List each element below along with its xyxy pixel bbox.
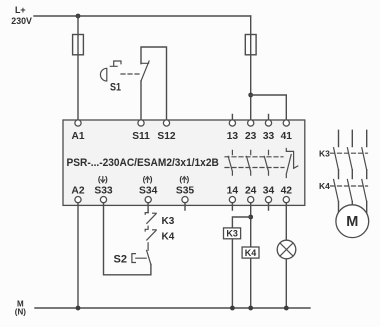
svg-text:13: 13 bbox=[227, 131, 239, 142]
svg-text:S2: S2 bbox=[114, 254, 127, 266]
svg-text:M: M bbox=[346, 214, 358, 230]
svg-text:23: 23 bbox=[245, 131, 257, 142]
svg-text:L+: L+ bbox=[15, 5, 26, 15]
svg-text:K4: K4 bbox=[319, 181, 330, 191]
svg-text:A2: A2 bbox=[71, 186, 84, 197]
svg-text:K4: K4 bbox=[245, 248, 257, 258]
svg-text:S33: S33 bbox=[94, 186, 113, 197]
svg-text:(N): (N) bbox=[15, 308, 26, 317]
svg-text:K3: K3 bbox=[226, 229, 238, 239]
svg-text:41: 41 bbox=[281, 131, 293, 142]
svg-text:S34: S34 bbox=[139, 186, 158, 197]
svg-text:A1: A1 bbox=[71, 131, 84, 142]
svg-text:42: 42 bbox=[281, 186, 293, 197]
svg-text:24: 24 bbox=[245, 186, 257, 197]
svg-text:S1: S1 bbox=[110, 82, 121, 94]
svg-text:K3: K3 bbox=[319, 149, 330, 159]
svg-text:K4: K4 bbox=[162, 232, 175, 243]
svg-text:S35: S35 bbox=[176, 186, 195, 197]
svg-text:S12: S12 bbox=[157, 131, 175, 142]
svg-text:S11: S11 bbox=[132, 131, 150, 142]
svg-text:14: 14 bbox=[227, 186, 239, 197]
svg-text:230V: 230V bbox=[11, 16, 32, 26]
svg-text:PSR-...-230AC/ESAM2/3x1/1x2B: PSR-...-230AC/ESAM2/3x1/1x2B bbox=[67, 157, 220, 169]
svg-text:K3: K3 bbox=[162, 216, 175, 227]
svg-text:34: 34 bbox=[263, 186, 275, 197]
svg-text:33: 33 bbox=[263, 131, 275, 142]
